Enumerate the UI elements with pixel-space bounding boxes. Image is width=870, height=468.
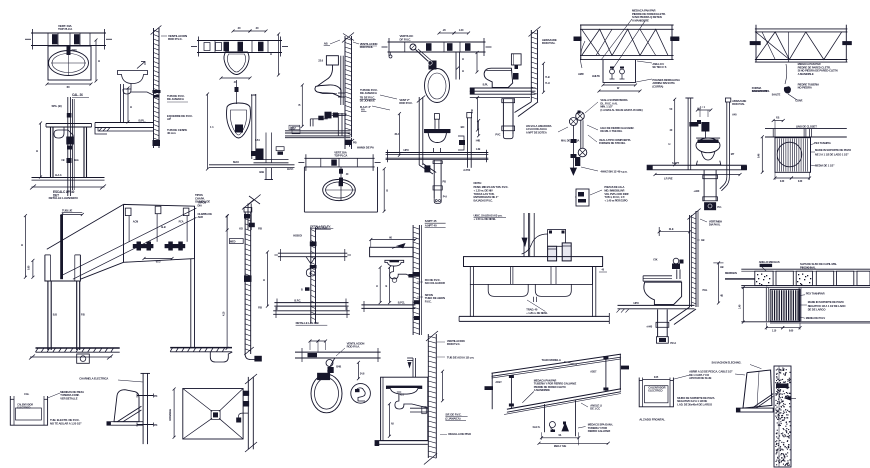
svg-text:P.F.A: P.F.A [670, 341, 676, 345]
svg-text:4B: 4B [720, 295, 723, 298]
F6 pipe below floor [344, 138, 346, 149]
flush WC F15 - left valve fixture [576, 112, 585, 121]
F10 counter line [386, 152, 489, 154]
F2 trap [54, 127, 73, 138]
F6 urinal sideways profile [315, 85, 341, 97]
svg-text:(CORRA): (CORRA) [652, 84, 663, 88]
F10 faucet right [467, 118, 469, 168]
F27 right dim [357, 362, 359, 378]
F1 right dimension [95, 40, 97, 81]
F28 drain to wall [410, 407, 428, 409]
svg-text:MED: MED [230, 240, 236, 244]
urinal front F5 - left dimension [207, 94, 209, 169]
F10 long vent pipe left [418, 97, 420, 165]
F25 wall blobs [413, 272, 421, 277]
svg-text:PCA: PCA [179, 221, 184, 224]
svg-text:HOB DI: HOB DI [293, 234, 302, 238]
F20 inner water rect [16, 408, 42, 420]
F29 lower beam [507, 389, 621, 410]
svg-text:4HHZ BN 12 49 r.p.a.: 4HHZ BN 12 49 r.p.a. [600, 169, 627, 173]
F5 tee down pipe [265, 133, 267, 164]
svg-text:ALB: ALB [161, 226, 166, 229]
F26 center drain [533, 297, 535, 302]
F14 support brackets [750, 41, 761, 45]
F26 sink bowl 2 [535, 284, 571, 296]
F5 bottom horizontal pipe [254, 159, 289, 161]
svg-text:B: B [386, 189, 388, 193]
svg-text:DET. PLA: DET. PLA [316, 226, 328, 230]
svg-text:SPA. (B): SPA. (B) [52, 104, 62, 108]
svg-text:ELECTRICO: ELECTRICO [17, 406, 30, 409]
F5 vent pipe [251, 94, 253, 159]
washbasin plan F7 - wall band [304, 157, 374, 159]
svg-text:H: H [98, 59, 100, 63]
svg-text:AB: AB [324, 42, 328, 46]
svg-text:B3B: B3B [259, 171, 264, 174]
svg-text:PEX TANHPIAR: PEX TANHPIAR [806, 292, 825, 296]
svg-text:CB: CB [61, 160, 64, 162]
F7 basin ellipse [323, 179, 356, 200]
svg-text:ENTERRADAS DE 4″: ENTERRADAS DE 4″ [474, 195, 500, 199]
F16 outer box [775, 138, 811, 173]
svg-text:DE MIL C TEE DEL: DE MIL C TEE DEL [600, 129, 622, 133]
F11 drain pipe below platform [502, 99, 504, 134]
svg-text:0.30: 0.30 [780, 180, 785, 183]
svg-text:MED A THE: MED A THE [554, 445, 567, 448]
svg-text:B: B [299, 103, 301, 107]
F5 valve rects right [276, 147, 284, 151]
svg-text:B.A.C.: B.A.C. [55, 174, 62, 177]
F18 legs [47, 281, 49, 350]
svg-text:ACM: ACM [133, 221, 138, 224]
F23 center drain [211, 410, 220, 419]
svg-text:H: H [263, 278, 265, 282]
F1 basin ellipse [49, 51, 89, 76]
svg-text:B.B: B.B [53, 313, 57, 317]
F5 floor line [209, 164, 295, 166]
F14 end posts [755, 25, 757, 62]
F30 toilet foot [654, 304, 673, 306]
svg-text:A40: A40 [732, 112, 737, 116]
sloped joist F29 - upper beam [492, 354, 622, 373]
svg-text:22.6: 22.6 [318, 59, 323, 63]
F3 pipe top break tick [151, 26, 162, 35]
F30 wall top slant tick [687, 209, 700, 220]
F26 faucet cylinder 2 [562, 243, 571, 261]
svg-text:PK: PK [154, 394, 158, 398]
F8 flush valve blob [429, 61, 437, 70]
svg-text:HHLTE: HHLTE [592, 74, 600, 78]
F28 basin inside [386, 386, 421, 394]
F23 elbow with cap [238, 413, 248, 419]
F8 bowl ellipse [425, 69, 450, 103]
svg-text:MADE IN SOPORTE DE POZO: MADE IN SOPORTE DE POZO [815, 148, 852, 152]
F15 bowl [696, 138, 720, 153]
F18 floor left dark [36, 347, 120, 349]
WC plan F8 - wall band [388, 41, 486, 43]
svg-text:TUBLUE: TUBLUE [62, 209, 73, 213]
F18 left dim [24, 216, 26, 278]
F3 wall junction blobs [153, 90, 161, 93]
F15 base [696, 161, 720, 165]
F24 trap [306, 257, 316, 277]
svg-text:ADET: ADET [495, 381, 502, 384]
svg-text:MD. INMOBILIAR: MD. INMOBILIAR [604, 188, 624, 192]
F22 shelf [107, 422, 143, 426]
F26 counter slab [464, 257, 603, 267]
svg-text:H: H [669, 142, 671, 146]
F24 pipe column [310, 227, 312, 323]
F5 small anchor detail below [247, 195, 260, 206]
vessel F33 - outer U shape [639, 378, 673, 407]
F24 floor level 1 [274, 302, 348, 304]
F26 apron panels [470, 267, 592, 285]
F4 toilet bowl plan [224, 52, 249, 75]
F10 faucet stem above basin [434, 119, 436, 129]
F28 trap [395, 394, 428, 410]
F8 flush diagonal pipe [416, 50, 432, 65]
F18 dark supply pipe [60, 215, 63, 280]
F14 web diagonals [756, 32, 842, 60]
F31 floor line [741, 321, 870, 323]
svg-text:HHMX DE PA: HHMX DE PA [357, 146, 375, 150]
F10 elbow from vent to drain [419, 165, 433, 174]
svg-text:H.H: H.H [697, 108, 701, 111]
svg-text:MADE IN SOPORTE DE POZO: MADE IN SOPORTE DE POZO [808, 300, 845, 304]
F11 elbow diagonal to vent [515, 102, 532, 113]
F31 gate side guides [765, 288, 767, 322]
F2 floor line [32, 177, 105, 179]
svg-text:90.: 90. [558, 434, 561, 437]
svg-text:ADET: ADET [590, 371, 597, 374]
F33 leader to abrir [673, 375, 689, 379]
F10 left dim [398, 114, 400, 156]
F1 basin centerlines [51, 62, 86, 64]
F26 floor [459, 315, 609, 317]
heater wall F22 - wall verticals [142, 373, 144, 444]
svg-text:B.P.C.: B.P.C. [294, 299, 301, 303]
F13 dims below hanger [603, 84, 636, 86]
F29 support brackets [485, 386, 494, 390]
F3 dimension [127, 88, 129, 122]
svg-text:S.NPT: S.NPT [672, 161, 680, 165]
F13 pipe clamp glyphs [610, 69, 615, 74]
svg-text:PIEZAS DE AG.A: PIEZAS DE AG.A [604, 185, 624, 189]
F3 faucet arrow [137, 62, 145, 69]
svg-text:TUB DE AGUA 1/2 cm.: TUB DE AGUA 1/2 cm. [447, 356, 475, 360]
svg-text:PK: PK [154, 423, 158, 427]
F18 axono connect lines [47, 204, 124, 249]
svg-text:P.B: P.B [81, 313, 85, 317]
svg-text:Y2K: Y2K [653, 259, 658, 262]
svg-text:SE TEO C S: SE TEO C S [652, 65, 666, 69]
F13 bottom chord [580, 54, 674, 56]
svg-text:DETALLE LAVADERO: DETALLE LAVADERO [49, 196, 79, 200]
svg-text:0.54: 0.54 [255, 138, 260, 142]
F2 right leg [83, 127, 85, 177]
svg-text:PVC: PVC [495, 133, 500, 137]
F24 left dim [266, 252, 268, 306]
svg-text:SIF. DE P.V.C.: SIF. DE P.V.C. [445, 413, 461, 417]
svg-text:DIA PAUL: DIA PAUL [709, 223, 721, 227]
F22 brace [117, 406, 141, 422]
svg-text:84.2: 84.2 [395, 133, 400, 136]
F5 urinal body [227, 103, 251, 138]
svg-text:DE JAMAICA: DE JAMAICA [360, 91, 378, 95]
F11 valvula symbol [569, 118, 577, 126]
svg-text:MAX: MAX [290, 126, 296, 130]
F30 flush pipe down [676, 269, 678, 279]
F25 slab arrow [397, 244, 405, 249]
svg-text:TAHO MODELA: TAHO MODELA [542, 358, 561, 362]
truss F14 - top chord [755, 28, 848, 30]
F15 drain cap dark [704, 202, 716, 210]
F8 top dims [439, 32, 454, 34]
F29 end posts [491, 373, 493, 409]
F29 hanger rod 1 [510, 376, 512, 409]
F18 right slab edge down [190, 259, 192, 349]
svg-text:0.46: 0.46 [758, 153, 761, 158]
F32 brace diagonal [752, 394, 773, 409]
svg-text:F.B: F.B [776, 117, 780, 120]
register box F16 - lintel band above [765, 128, 847, 130]
svg-text:VDL PVP+COD 30DF: VDL PVP+COD 30DF [604, 192, 629, 196]
wall WC F27 - top band [295, 351, 381, 353]
F26 hose curve [522, 234, 548, 254]
svg-text:1.4B: 1.4B [476, 148, 481, 151]
F15 left small fig 2 [576, 189, 589, 206]
svg-text:H: H [270, 52, 272, 56]
F25 wall lower blobs [414, 300, 420, 304]
F15 leader lines [585, 102, 598, 113]
vent pipe column F3 [153, 28, 155, 148]
F13 end posts [580, 25, 582, 60]
F26 control box [548, 230, 566, 247]
F19 bottom elbow [245, 354, 257, 360]
F28 right dim col [442, 371, 444, 401]
F18 faucet caps open squares [125, 208, 131, 216]
F8 band flush circle [410, 44, 416, 50]
svg-text:TLB: TLB [545, 76, 550, 79]
F33 top dim [643, 379, 671, 381]
svg-text:ROD P.V.C.: ROD P.V.C. [447, 342, 461, 346]
svg-text:DE JAMAICA: DE JAMAICA [167, 97, 185, 101]
svg-text:A.NPT 40: A.NPT 40 [425, 223, 437, 227]
F32 wall arrow [785, 396, 791, 400]
F13 support brackets [574, 37, 582, 42]
F26 legs [469, 284, 471, 317]
F13 left leader curve [581, 41, 585, 68]
F15 drain pipe below [703, 170, 705, 201]
F3 counter end hatch [99, 128, 102, 132]
svg-text:P.B: P.B [258, 306, 262, 310]
svg-text:MAL DE NOTBA: MAL DE NOTBA [561, 139, 580, 143]
F18 right floor trap [210, 352, 232, 362]
F30 right dims [718, 263, 720, 303]
svg-text:CAL: CAL [24, 392, 29, 396]
F6 left dim [301, 85, 303, 126]
F32 heater tilted box [743, 370, 772, 408]
F31 block 3 speckled [796, 271, 812, 285]
F3 floor curb [95, 123, 107, 135]
svg-text:A NPT DE SOTEA: A NPT DE SOTEA [526, 130, 547, 134]
svg-text:+H40: +H40 [646, 325, 652, 329]
F27 paper holder circle [351, 384, 371, 404]
F10 basin pedestal stem [433, 148, 435, 153]
svg-text:XLE: XLE [669, 227, 674, 231]
svg-text:VER DETALLE: VER DETALLE [60, 396, 77, 400]
svg-text:BLE: BLE [75, 160, 80, 162]
F8 small circle below band [390, 52, 392, 55]
F18 faucet cluster 2 dark [165, 244, 186, 248]
F27 top dims [310, 340, 318, 342]
F2 counter top [46, 123, 92, 125]
F2 left leg [50, 127, 52, 177]
svg-text:1 1: 1 1 [210, 125, 214, 129]
F28 wall pipe [427, 334, 429, 458]
svg-text:B.PCL: B.PCL [398, 301, 406, 305]
F13 web diagonals [582, 29, 668, 55]
F18 floor right dark [170, 347, 232, 349]
svg-text:ELECTRICO: ELECTRICO [648, 389, 662, 393]
F30 top dim [658, 227, 660, 236]
F2 vent pipe vertical [67, 97, 69, 196]
F29 hanger frame verticals [544, 404, 546, 432]
svg-text:DE JOHBUE: DE JOHBUE [360, 99, 375, 103]
F25 floor [361, 304, 415, 306]
F23 left dim [173, 389, 175, 437]
F29 faucet symbols in frame [549, 422, 555, 428]
svg-text:ROD P.V.A.: ROD P.V.A. [347, 345, 361, 349]
F13 hanger stirrup [603, 60, 636, 83]
F30 drain cap [657, 337, 669, 344]
svg-text:+ 1.40 m PER ESPO: + 1.40 m PER ESPO [604, 199, 627, 203]
svg-text:AER: AER [198, 215, 203, 219]
F19 valve blob [244, 275, 252, 282]
F16 pipe arc inside [777, 142, 802, 167]
svg-text:0.90: 0.90 [28, 265, 31, 270]
F23 right wall pipe [247, 377, 249, 449]
svg-text:AP: AP [167, 117, 171, 121]
F6 inner supply pipe [340, 56, 342, 105]
F16 left dim [761, 137, 763, 173]
svg-text:DETALLE LAV. PIB: DETALLE LAV. PIB [296, 321, 319, 325]
F10 drain pipe [433, 160, 435, 199]
water tank F20 - outline [10, 396, 47, 425]
F4 bowl bottom dim [221, 77, 250, 79]
F30 elbow diagonal from wall [670, 307, 690, 321]
svg-text:TODAS LAS TUB.: TODAS LAS TUB. [474, 192, 495, 196]
svg-text:BAN GRANT: BAN GRANT [752, 89, 768, 93]
F15 left dimension [674, 99, 676, 165]
F13 leader lines [601, 19, 632, 60]
F5 top pipe [236, 80, 238, 104]
F18 right dim [226, 216, 228, 349]
svg-text:1.10: 1.10 [772, 329, 777, 332]
F24 pipe fittings [310, 242, 317, 247]
F2 lower floor line [32, 186, 105, 188]
large WC side F30 - wall verticals [689, 215, 691, 307]
svg-text:A MANIOBRE: A MANIOBRE [632, 18, 649, 22]
F15 vent riser 1 [687, 98, 689, 170]
F32 shelf [736, 408, 773, 412]
F2 second pipe [72, 99, 74, 190]
F27 bowl top blob [317, 373, 330, 380]
F6 floor double [285, 130, 350, 132]
F5 valve blob on pipe [256, 149, 264, 161]
F6 gooseneck curve [317, 65, 333, 86]
F10 basin [424, 130, 450, 143]
F28 dims [388, 404, 390, 437]
svg-text:ALZADO FRONTAL: ALZADO FRONTAL [639, 418, 665, 422]
F3 floor [95, 122, 154, 124]
F30 drain pipe below floor [657, 310, 659, 337]
svg-text:EQUERRE DE P.V.C.: EQUERRE DE P.V.C. [167, 114, 193, 118]
F31 left dim [742, 288, 744, 323]
svg-text:P.V.C.: P.V.C. [425, 299, 432, 303]
F27 flush valve cluster [326, 360, 333, 367]
F14 leader with drop symbol [785, 64, 787, 84]
F28 floor [375, 440, 428, 442]
F25 wall column [412, 225, 414, 335]
F15 toilet tank lid [696, 137, 720, 139]
svg-text:A.P.50: A.P.50 [463, 168, 471, 172]
svg-text:HPX: HPX [404, 148, 409, 152]
F16 bottom dims [775, 177, 791, 179]
svg-text:TLH: TLH [545, 82, 550, 85]
F5 urinal drain blob [235, 125, 243, 133]
F6 tank rect [326, 56, 338, 65]
F22 heater tank [114, 390, 139, 422]
F6 outlet to wall [338, 92, 345, 94]
truss F13 - top chord [580, 24, 674, 26]
F11 right dim labels [543, 63, 545, 92]
F18 tank rect [45, 255, 81, 281]
F27 bowl ellipse [311, 374, 342, 413]
svg-text:Ø40: Ø40 [72, 48, 77, 52]
svg-text:H.F.F.: H.F.F. [287, 167, 294, 171]
svg-text:TRAD. 40: TRAD. 40 [526, 308, 538, 312]
F6 drain fitting cluster [325, 112, 332, 119]
F28 cabinet rect [381, 377, 428, 440]
F18 long leader diagonals [62, 208, 197, 275]
svg-text:ROD PVAL: ROD PVAL [542, 41, 556, 45]
F11 left dim [477, 98, 479, 131]
F31 block 2 [776, 271, 793, 285]
svg-text:H4B: H4B [476, 140, 481, 143]
F11 platform dark end [470, 88, 475, 94]
vent pipe column F19 [244, 212, 246, 354]
svg-text:H: H [462, 69, 464, 73]
F19 top cap and break tick [244, 208, 252, 213]
svg-text:PEX TANHPIA: PEX TANHPIA [814, 141, 831, 145]
svg-text:NO TE AISLAR A 1.20 1/2″: NO TE AISLAR A 1.20 1/2″ [50, 421, 82, 425]
F18 dim 060 [144, 258, 172, 260]
F16 vertical hatch [776, 139, 778, 172]
F2 left dimension [40, 123, 42, 177]
F1 counter rectangle [48, 46, 91, 80]
svg-text:LINO DE CLOSET: LINO DE CLOSET [796, 125, 817, 129]
svg-text:P·A: P·A [443, 195, 447, 199]
F31 bottom dims [766, 327, 782, 329]
F24 counter [278, 252, 347, 254]
F32 wall dark band [776, 384, 789, 389]
svg-text:BAJADAS P.V.C.: BAJADAS P.V.C. [474, 199, 494, 203]
svg-text:NEGATIVO 1/2 A 1 1/2 DE LADO: NEGATIVO 1/2 A 1 1/2 DE LADO [808, 304, 847, 308]
F15 flush valve assembly [689, 122, 698, 127]
F7 right dim [383, 169, 385, 211]
svg-text:DE DE LARGO: DE DE LARGO [808, 307, 827, 311]
